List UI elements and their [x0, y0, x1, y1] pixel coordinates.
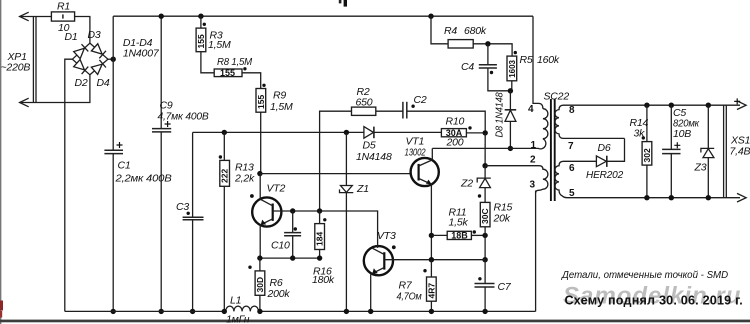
svg-text:R5: R5: [520, 54, 533, 66]
resistor R4: [448, 40, 473, 48]
node R11 left: [429, 233, 434, 238]
label XP1: [7, 51, 27, 63]
connector XS1 arrow plus: [737, 101, 746, 110]
node ground VT3: [368, 309, 373, 314]
svg-text:5: 5: [569, 188, 575, 199]
smd dot R3: [203, 23, 206, 26]
diode D2: [74, 59, 89, 74]
svg-text:C1: C1: [118, 160, 131, 172]
label R7: [399, 280, 413, 292]
node top rail R4: [428, 14, 433, 19]
smd dot R6: [248, 266, 251, 269]
svg-text:D3: D3: [88, 29, 101, 41]
smd dot VT3: [392, 245, 396, 249]
node VT3 base C7: [482, 257, 487, 262]
svg-text:Детали, отмеченные точкой - SM: Детали, отмеченные точкой - SMD: [561, 270, 728, 281]
pin label 2: [530, 155, 536, 166]
wire R1 to bridge top: [75, 17, 90, 44]
secondary bottom rail pin5 to XS1: [577, 197, 740, 199]
svg-text:3k: 3k: [634, 128, 646, 140]
wire VT3 base line: [384, 259, 485, 261]
svg-text:160k: 160k: [537, 54, 560, 66]
plus mark C5: [674, 142, 680, 148]
note schematic author: [565, 293, 743, 307]
label 1N4007: [123, 48, 160, 60]
node C10 bottom: [290, 255, 295, 260]
resistor R10: [441, 128, 466, 138]
wire R3 to R8: [201, 52, 214, 73]
svg-text:7: 7: [568, 141, 574, 152]
label R13: [235, 162, 254, 174]
node top rail R3: [198, 14, 203, 19]
ground rail bottom: [65, 310, 226, 312]
smd dot VT2: [250, 194, 254, 198]
mains cable double line: [33, 17, 36, 103]
label C5: [673, 107, 686, 119]
svg-text:C10: C10: [271, 240, 290, 252]
resistor R8: [214, 68, 242, 78]
wire VT1 emitter down: [430, 185, 432, 260]
svg-text:C4: C4: [461, 61, 474, 73]
label R5: [520, 54, 533, 66]
node R10 C2 junction: [483, 130, 488, 135]
diode D1: [74, 44, 89, 59]
pin label 1: [531, 140, 537, 151]
label R1: [57, 1, 70, 13]
node R14 bottom: [644, 195, 649, 200]
resistor R15: [480, 202, 490, 235]
node Z3 top: [706, 103, 711, 108]
wire VT3 emitter to ground: [371, 274, 372, 312]
node ground R6: [257, 309, 262, 314]
node C5 top: [669, 103, 674, 108]
svg-text:D2: D2: [75, 77, 88, 89]
secondary top rail pin8 to XS1: [577, 104, 740, 106]
wire R15 to C7 node: [484, 235, 486, 259]
node ground Z1: [344, 309, 349, 314]
capacitor C7: [475, 260, 495, 312]
connector XS1 arrow minus: [737, 193, 746, 202]
node ground C7: [482, 309, 487, 314]
svg-text:7,4В: 7,4В: [730, 146, 750, 158]
smd dot C3: [187, 212, 190, 215]
label 20k: [493, 213, 511, 225]
node R2 R16 junction: [317, 208, 322, 213]
label D6: [598, 142, 611, 154]
diode D5: [364, 127, 374, 139]
svg-text:6: 6: [569, 163, 575, 174]
label 820mk: [673, 118, 700, 130]
smd dot R13: [219, 155, 222, 158]
wire R8 to R9: [242, 73, 261, 89]
svg-text:D5: D5: [363, 140, 376, 152]
svg-text:4R7: 4R7: [426, 283, 436, 299]
wire pin1 transformer: [432, 147, 538, 149]
smd dot R14: [642, 136, 645, 139]
svg-text:200: 200: [446, 137, 464, 149]
label R3: [210, 30, 223, 42]
wire pin3 down to ground rail: [535, 191, 537, 312]
inductor L1: [226, 306, 259, 311]
watermark samodelkin: [563, 283, 741, 310]
node top rail C9: [159, 14, 164, 19]
label 200: [446, 137, 464, 149]
label C4: [461, 61, 474, 73]
svg-text:184: 184: [315, 232, 325, 246]
smd dot R15: [478, 194, 481, 197]
wire R4 to C4 R5 node: [473, 44, 512, 56]
svg-text:13002: 13002: [405, 147, 426, 159]
transformer SC22 primary winding 2-3: [536, 166, 548, 193]
resistor R1: [51, 12, 74, 21]
node Z3 bottom: [706, 195, 711, 200]
svg-text:D1: D1: [65, 31, 78, 43]
label VT2: [267, 183, 286, 195]
svg-text:R10: R10: [446, 116, 465, 128]
wire C2 to R10 node: [407, 111, 485, 133]
pin label 3: [530, 180, 536, 191]
wire R10 to C2 column: [466, 132, 485, 134]
svg-text:4: 4: [528, 104, 534, 115]
wire C2 column down Z2 R15: [484, 133, 486, 166]
wire R13 to ground: [223, 186, 225, 311]
svg-text:4,7Ом: 4,7Ом: [397, 291, 422, 303]
capacitor C5: [662, 105, 680, 198]
svg-text:1603: 1603: [508, 59, 517, 77]
svg-text:155: 155: [256, 95, 266, 109]
node ground R13: [222, 309, 227, 314]
node ground R7: [429, 309, 434, 314]
label D8 1N4148 rotated: [494, 92, 506, 137]
label D5: [363, 140, 376, 152]
label C10: [271, 240, 290, 252]
resistor R6: [255, 258, 265, 311]
resistor R7: [426, 260, 436, 312]
label 13002: [405, 147, 426, 159]
svg-text:R8 1,5M: R8 1,5M: [217, 56, 252, 68]
label SC22: [544, 91, 570, 103]
label 1mGn: [226, 314, 250, 324]
pin label 7: [568, 141, 574, 152]
label R2: [357, 86, 370, 98]
wire R2 branch down: [320, 111, 352, 211]
label 1N4148 D5: [356, 151, 392, 163]
label L1: [230, 295, 241, 307]
label C7: [498, 281, 512, 293]
svg-text:2,2k: 2,2k: [234, 173, 255, 185]
node ground C3: [190, 309, 195, 314]
node ground C9: [159, 309, 164, 314]
smd dot C4: [490, 71, 493, 74]
diode D8: [505, 91, 517, 149]
note SMD parts: [561, 270, 728, 281]
transformer secondary winding 6-5: [555, 161, 596, 197]
wire XP1 pin1 to R1: [20, 16, 52, 18]
connector XP1 arrow pin 2: [20, 98, 29, 107]
resistor R14: [642, 105, 652, 198]
svg-text:680k: 680k: [464, 25, 487, 37]
plus mark C1: [117, 142, 123, 148]
resistor R3: [196, 16, 206, 52]
svg-text:D8 1N4148: D8 1N4148: [494, 92, 506, 137]
label Z2: [460, 178, 473, 190]
svg-text:3: 3: [530, 180, 536, 191]
label 7,4V: [730, 146, 750, 158]
label 4,7mk 400V: [158, 111, 209, 123]
svg-text:C3: C3: [176, 201, 189, 213]
transistor VT3: [364, 246, 393, 275]
svg-text:1: 1: [531, 140, 537, 151]
wire VT2 emitter node line: [260, 257, 320, 259]
svg-text:200k: 200k: [267, 288, 291, 300]
transistor VT2: [252, 197, 281, 226]
node R7 top: [429, 257, 434, 262]
svg-text:1,5M: 1,5M: [208, 39, 231, 51]
label 160k: [537, 54, 560, 66]
label D3: [88, 29, 101, 41]
capacitor C4: [479, 44, 512, 91]
ground rail right of L1: [259, 310, 536, 312]
clipped text fragment top center: [339, 0, 347, 7]
svg-text:1N4007: 1N4007: [123, 48, 160, 60]
label R6: [270, 277, 283, 289]
svg-text:2: 2: [530, 155, 536, 166]
transformer SC22 primary winding 4-1: [538, 109, 548, 149]
label 4,7 Om: [397, 291, 422, 303]
resistor R2: [352, 107, 376, 115]
wire plus column top rail to C1: [112, 16, 114, 150]
svg-text:155: 155: [220, 68, 235, 78]
label 2,2k: [234, 173, 255, 185]
wire R13 stem top: [223, 132, 225, 160]
wire VT2 emitter down: [259, 225, 261, 258]
svg-text:HER202: HER202: [586, 169, 623, 181]
node emitter R6: [257, 255, 262, 260]
label D1-D4: [123, 37, 153, 49]
label R15: [494, 202, 513, 214]
wire net C3 R13 Z1 D5: [193, 131, 442, 133]
svg-text:4,7мк 400В: 4,7мк 400В: [158, 111, 209, 123]
wire R2 to C2: [376, 110, 403, 112]
node R11 right: [482, 233, 487, 238]
label R11: [449, 207, 467, 219]
page left border: [0, 0, 2, 324]
diode D3: [91, 44, 106, 59]
resistor R11: [431, 231, 485, 241]
smd dot C2: [411, 105, 414, 108]
label VT1: [406, 136, 425, 148]
transistor VT1: [411, 158, 439, 186]
wire VT1 collector to pin1: [431, 148, 433, 160]
capacitor C9: [152, 16, 171, 311]
svg-text:155: 155: [196, 34, 206, 48]
node ground C1: [111, 309, 116, 314]
label 650: [356, 97, 373, 109]
label 10V: [673, 128, 691, 140]
svg-text:R4: R4: [444, 25, 457, 37]
label C2: [414, 94, 427, 106]
label 180k: [312, 274, 335, 286]
output cable double line: [724, 105, 727, 198]
label R8 1,5M: [217, 56, 252, 68]
svg-text:8: 8: [569, 105, 575, 116]
label C9: [160, 100, 173, 112]
resistor R9: [256, 89, 266, 113]
wire VT2 collector: [259, 174, 261, 200]
node pin2 junction: [482, 163, 487, 168]
node C10 top: [290, 208, 295, 213]
svg-text:222: 222: [220, 169, 230, 183]
node VT2 collector: [257, 171, 262, 176]
svg-text:1,5M: 1,5M: [270, 101, 293, 113]
svg-text:VT3: VT3: [377, 230, 396, 242]
smd dot R7: [423, 269, 426, 272]
wire top rail to transformer pin4: [533, 16, 543, 109]
svg-text:D4: D4: [97, 77, 110, 89]
smd dot C7: [478, 277, 481, 280]
smd dot R8: [243, 67, 246, 70]
smd dot R10: [468, 126, 471, 129]
capacitor C1: [104, 150, 123, 311]
node C4 top: [485, 41, 490, 46]
label Z1: [356, 183, 369, 195]
label ~220V: [1, 62, 31, 74]
wire R9 down to VT2 collector node: [260, 112, 262, 173]
label 1,5k: [449, 217, 469, 229]
label 2,2mk 400V: [114, 173, 171, 185]
node C5 bottom: [669, 195, 674, 200]
resistor R5: [507, 56, 517, 91]
wire VT2 base: [273, 210, 378, 212]
svg-text:20k: 20k: [493, 213, 511, 225]
label 10: [58, 22, 70, 34]
transformer core: [551, 99, 555, 201]
wire rail to R4: [431, 16, 448, 44]
label R14: [630, 117, 649, 129]
diode D4: [91, 60, 106, 75]
smd dot R11: [473, 230, 476, 233]
node Z1 top: [344, 130, 349, 135]
diode bridge diamond: [72, 43, 108, 75]
label XS1: [730, 135, 750, 147]
label 1,5M R9: [270, 101, 293, 113]
capacitor C10: [284, 211, 301, 258]
svg-text:2,2мк 400В: 2,2мк 400В: [114, 173, 171, 185]
svg-text:180k: 180k: [312, 274, 335, 286]
svg-text:L1: L1: [230, 295, 241, 307]
node D8 top: [508, 88, 513, 93]
label C1: [118, 160, 131, 172]
label D2: [75, 77, 88, 89]
label D1: [65, 31, 78, 43]
svg-text:18В: 18В: [451, 231, 468, 241]
smd dot C10: [294, 227, 297, 230]
smd dot R5: [514, 51, 517, 54]
red watermark fragment bottom left: [0, 301, 3, 318]
zener Z2: [477, 166, 491, 203]
label VT3: [377, 230, 396, 242]
svg-text:Z3: Z3: [694, 162, 707, 174]
smd dot R9: [262, 84, 265, 87]
node R13 top: [222, 130, 227, 135]
svg-text:R1: R1: [57, 1, 70, 13]
svg-text:C2: C2: [414, 94, 427, 106]
svg-text:SC22: SC22: [544, 91, 570, 103]
svg-text:Z2: Z2: [460, 178, 473, 190]
svg-text:650: 650: [356, 97, 373, 109]
diode D6: [596, 156, 606, 167]
capacitor C3: [183, 132, 204, 311]
svg-text:30C: 30C: [480, 208, 490, 224]
svg-text:Схему поднял 30. 06. 2019 г.: Схему поднял 30. 06. 2019 г.: [565, 293, 743, 307]
resistor R16: [315, 211, 325, 258]
label 1,5M R3: [208, 39, 231, 51]
wire XP1 pin2 to bridge bottom: [20, 75, 90, 103]
plus mark XS1: [734, 98, 740, 104]
node bridge plus junction: [111, 57, 116, 62]
label R16: [313, 266, 332, 278]
page bottom border: [0, 320, 750, 323]
label C3: [176, 201, 189, 213]
label R10: [446, 116, 465, 128]
svg-text:~220В: ~220В: [1, 62, 31, 74]
wire bridge minus down to ground rail: [65, 59, 73, 311]
node D8 pin1 junction: [508, 146, 513, 151]
svg-text:D6: D6: [598, 142, 611, 154]
smd dot R16: [323, 218, 326, 221]
zener Z3: [701, 105, 714, 198]
svg-text:1мГн: 1мГн: [226, 314, 250, 324]
label 200k: [267, 288, 291, 300]
connector XP1 arrow pin 1: [20, 12, 29, 21]
wire bridge plus to vertical node: [108, 58, 113, 60]
svg-text:302: 302: [642, 148, 652, 162]
resistor R13: [220, 160, 230, 186]
svg-text:C7: C7: [498, 281, 512, 293]
label D4: [97, 77, 110, 89]
zener Z1: [340, 132, 354, 311]
svg-text:30D: 30D: [255, 277, 265, 293]
wire pin2 transformer: [485, 165, 539, 167]
wire VT3 collector up left: [376, 211, 378, 248]
transformer secondary winding 8-7: [555, 105, 625, 138]
plus mark C9: [165, 121, 171, 127]
label Z3: [694, 162, 707, 174]
pin label 4: [528, 104, 534, 115]
svg-text:1N4148: 1N4148: [356, 151, 392, 163]
svg-text:R9: R9: [273, 90, 286, 102]
pin label 5: [569, 188, 575, 199]
svg-text:Z1: Z1: [356, 183, 369, 195]
label HER202: [586, 169, 623, 181]
pin label 6: [569, 163, 575, 174]
capacitor C2: [403, 102, 407, 119]
node R16 bottom: [317, 255, 322, 260]
pin label 8: [569, 105, 575, 116]
wire VT2 collector to VT1 base: [260, 173, 411, 175]
wire D6 cathode to pin7: [607, 138, 625, 161]
svg-text:1,5k: 1,5k: [449, 217, 469, 229]
top rail: [113, 15, 533, 17]
label R4 680k: [444, 25, 487, 37]
svg-text:10В: 10В: [673, 128, 691, 140]
label 3k: [634, 128, 646, 140]
node R14 top: [644, 103, 649, 108]
label R9: [273, 90, 286, 102]
svg-text:VT2: VT2: [267, 183, 286, 195]
